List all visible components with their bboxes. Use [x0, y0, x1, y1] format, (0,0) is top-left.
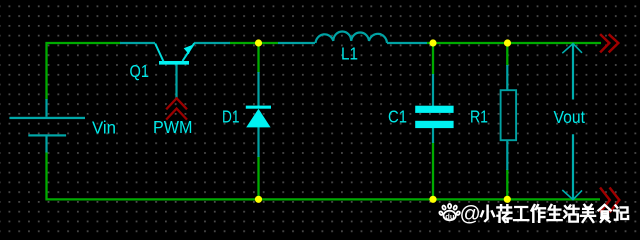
svg-text:du: du [445, 212, 455, 221]
wire node A to D1 [257, 44, 259, 73]
node A junction dot [255, 39, 262, 46]
char ji [614, 206, 628, 220]
char zuo [531, 205, 544, 222]
svg-text:C1: C1 [388, 106, 407, 126]
svg-text:Vout: Vout [554, 107, 586, 127]
node C junction dot [504, 39, 511, 46]
resistor R1 pins [506, 65, 508, 170]
svg-text:@: @ [460, 202, 481, 225]
node B junction dot [429, 39, 436, 46]
Vout indicator line with arrows [562, 44, 582, 200]
wire node B to C1 [432, 44, 434, 75]
port bottom-right return chevrons [601, 189, 620, 212]
inductor L1 [278, 31, 427, 43]
wire D1 to bottom [257, 156, 259, 199]
diode D1 pins [257, 72, 259, 157]
bottom junction dot under R1 [504, 196, 511, 203]
wire R1 to bottom [506, 169, 508, 199]
bottom junction dot under C1 [429, 196, 436, 203]
watermark paw logo [439, 204, 461, 220]
svg-text:Q1: Q1 [130, 61, 150, 81]
port top-right output chevrons [601, 35, 618, 52]
svg-text:L1: L1 [341, 43, 358, 63]
svg-text:R1: R1 [470, 107, 488, 127]
wire top-left horizontal [46, 42, 122, 44]
char jiang [497, 205, 511, 222]
wire node C to R1 [506, 44, 508, 66]
capacitor C1 pins [432, 74, 434, 143]
char xiao [481, 206, 494, 221]
watermark chinese strokes [481, 205, 628, 222]
wire bottom [46, 198, 601, 200]
svg-text:Vin: Vin [92, 118, 116, 138]
char gong [514, 207, 528, 220]
battery Vin plates [9, 117, 85, 119]
char sheng [548, 205, 562, 220]
wire C1 to bottom [432, 142, 434, 199]
wire top right (L1 to output port) [427, 42, 601, 44]
bottom junction dot under D1 [255, 196, 262, 203]
svg-text:D1: D1 [222, 107, 240, 127]
wire left vertical upper [45, 42, 47, 100]
battery Vin pins [45, 99, 47, 153]
capacitor C1 plates [415, 106, 453, 113]
transistor Q1 leads [120, 42, 230, 44]
char shi [598, 205, 610, 222]
resistor R1 body [501, 90, 516, 140]
char mei [581, 205, 595, 222]
wire top middle (Q1 collector to node A) [229, 42, 278, 44]
transistor Q1 body [155, 43, 194, 64]
port PWM chevrons [167, 98, 186, 119]
char huo [564, 206, 578, 222]
watermark [439, 202, 628, 225]
wire left vertical lower [45, 152, 47, 201]
transistor Q1 base pin [175, 64, 177, 98]
svg-text:PWM: PWM [153, 117, 193, 137]
diode D1 body [246, 106, 271, 128]
